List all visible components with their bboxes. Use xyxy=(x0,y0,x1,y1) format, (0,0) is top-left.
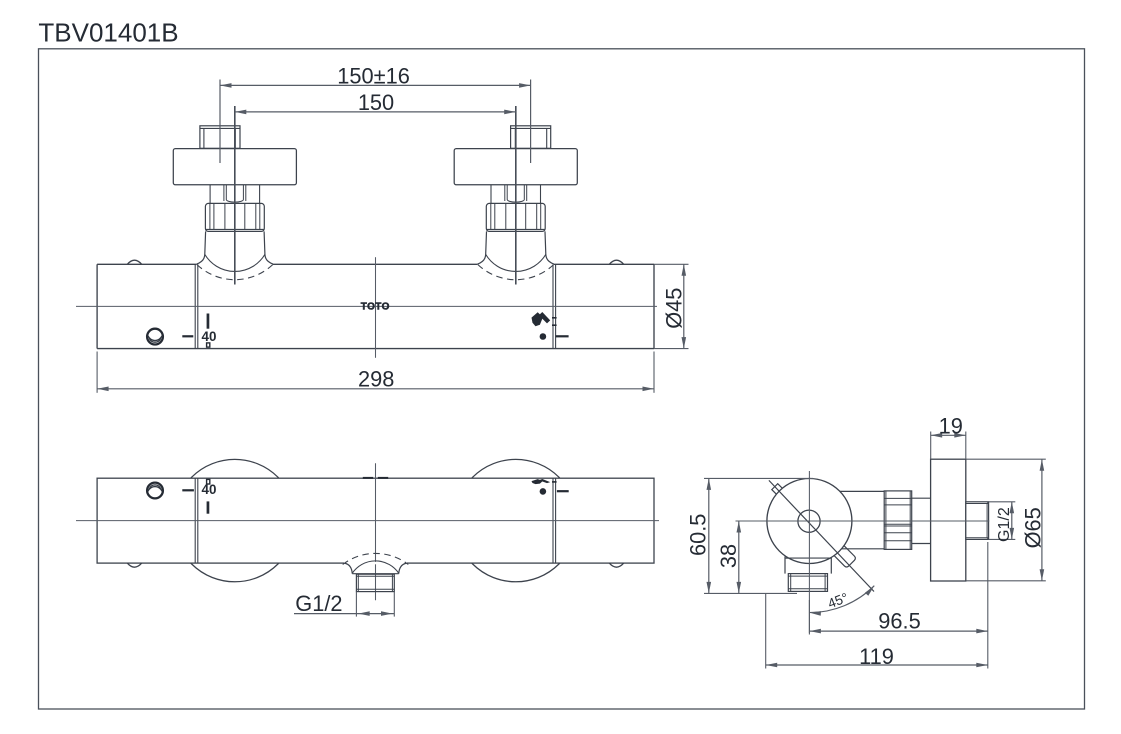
svg-text:19: 19 xyxy=(939,414,963,439)
svg-text:298: 298 xyxy=(358,366,394,391)
svg-text:45°: 45° xyxy=(826,590,850,611)
svg-text:40: 40 xyxy=(202,482,217,497)
svg-text:60.5: 60.5 xyxy=(686,514,711,556)
svg-text:G1/2: G1/2 xyxy=(996,507,1013,542)
svg-text:150: 150 xyxy=(358,90,394,115)
svg-text:Ø65: Ø65 xyxy=(1021,507,1046,548)
svg-text:150±16: 150±16 xyxy=(337,64,410,89)
svg-text:96.5: 96.5 xyxy=(878,609,920,634)
svg-text:G1/2: G1/2 xyxy=(295,591,342,616)
svg-text:TBV01401B: TBV01401B xyxy=(38,18,178,48)
svg-text:TOTO: TOTO xyxy=(361,301,390,312)
svg-text:119: 119 xyxy=(859,644,894,669)
svg-text:Ø45: Ø45 xyxy=(662,288,687,329)
svg-text:38: 38 xyxy=(716,544,741,568)
svg-text:40: 40 xyxy=(202,329,217,344)
